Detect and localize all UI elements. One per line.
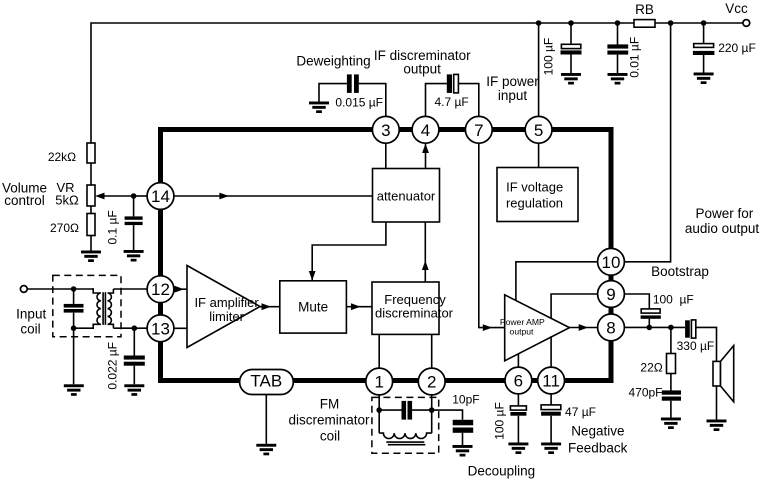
svg-text:control: control: [4, 193, 45, 208]
node VR wiper junction: [131, 193, 137, 199]
svg-text:7: 7: [474, 121, 483, 140]
wire deweighting cap right to pin 3: [359, 84, 386, 117]
capacitor 100uF decoupling: [510, 394, 526, 443]
svg-text:FM: FM: [320, 397, 340, 412]
capacitor 0.022uF: [124, 328, 145, 384]
pin 1: [366, 368, 393, 395]
wire pin 1 down: [378, 395, 380, 434]
wire secondary bottom to pin 13: [113, 327, 147, 329]
capacitor FM coil cap: [402, 401, 413, 420]
block Mute: [280, 281, 347, 333]
ground 470pF: [661, 418, 681, 430]
ground input coil: [64, 384, 84, 396]
ground 220uF: [694, 73, 714, 85]
ground 100uF top: [561, 73, 581, 85]
svg-text:5: 5: [534, 121, 543, 140]
svg-text:10: 10: [602, 253, 621, 272]
svg-text:100 µF: 100 µF: [542, 38, 556, 76]
pin 5: [525, 116, 552, 143]
node pin8 junction b: [668, 325, 674, 331]
wire pin 11 into amp: [550, 336, 552, 367]
svg-text:TAB: TAB: [250, 372, 282, 391]
node FM coil left: [376, 407, 382, 413]
label Input coil: [16, 306, 46, 336]
node rail junction at 703: [701, 20, 707, 26]
amplifier power amp: [505, 295, 570, 361]
svg-text:discreminator: discreminator: [375, 306, 454, 321]
svg-text:IF amplifier: IF amplifier: [194, 295, 259, 310]
label FM discreminator coil: [288, 397, 370, 444]
wire power amp to pin 8 with arrow: [570, 324, 599, 331]
wire pin 12 to limiter with arrow: [174, 286, 188, 293]
capacitor 330uF: [685, 320, 696, 338]
wire pin 5 to IF voltage regulation: [538, 143, 540, 168]
svg-text:Power for: Power for: [696, 206, 754, 221]
wire frequency discriminator to pin 2: [431, 334, 433, 368]
wire input coil bottom to ground: [73, 328, 75, 384]
svg-text:9: 9: [606, 285, 615, 304]
wire to 10pF: [432, 410, 463, 420]
transformer input primary winding: [74, 289, 101, 328]
node pin8 junction a: [647, 325, 653, 331]
dashed box input coil: [53, 275, 121, 336]
svg-text:IF voltage: IF voltage: [506, 179, 563, 194]
wire pin 8 output line: [624, 326, 685, 328]
svg-text:Bootstrap: Bootstrap: [651, 264, 709, 279]
svg-text:4: 4: [421, 121, 430, 140]
label Volume control: [2, 180, 47, 208]
node rail junction at 670: [668, 20, 674, 26]
svg-text:discreminator: discreminator: [288, 412, 370, 427]
block IF voltage regulation: [497, 168, 578, 222]
pin 7: [465, 116, 492, 143]
wire rail to pin 5: [538, 23, 540, 117]
ground volume divider: [81, 251, 101, 263]
wire 22 ohm to 470pF: [670, 374, 672, 391]
svg-text:3: 3: [381, 121, 390, 140]
wire pin 6 into amp: [517, 354, 519, 368]
wire VR to 270: [90, 206, 92, 214]
label IF power input: [486, 74, 539, 103]
TAB pad: [240, 370, 294, 395]
block frequency discriminator: [372, 282, 454, 334]
svg-text:470pF: 470pF: [628, 386, 662, 400]
capacitor 10pF: [453, 420, 474, 445]
capacitor 47uF: [541, 394, 561, 443]
capacitor 470pF: [662, 390, 681, 417]
svg-text:22Ω: 22Ω: [640, 361, 662, 375]
label IF amplifier limiter: [194, 295, 259, 324]
speaker: [713, 346, 734, 402]
svg-text:6: 6: [514, 372, 523, 391]
inductor FM coil: [379, 433, 432, 438]
svg-text:output: output: [510, 326, 535, 336]
resistor 22k: [87, 143, 95, 163]
wire junction b to 22 ohm: [670, 327, 672, 353]
svg-text:1: 1: [374, 373, 383, 392]
pin 6: [505, 367, 532, 394]
svg-text:4.7 µF: 4.7 µF: [434, 95, 468, 109]
transformer secondary winding: [108, 289, 114, 328]
node rail junction at 538: [536, 20, 542, 26]
wire 270 to ground: [90, 236, 92, 251]
label Negative Feedback: [568, 423, 628, 455]
resistor RB: [634, 20, 655, 28]
IC body thick outline: [161, 130, 612, 381]
svg-text:47 µF: 47 µF: [565, 405, 596, 419]
wire FM cap right lead: [412, 409, 432, 411]
ground 100uF decoupling: [508, 443, 528, 455]
svg-text:Deweighting: Deweighting: [296, 54, 370, 69]
wire rail to 0.01uF cap: [617, 23, 619, 45]
ground 0.022uF: [124, 384, 144, 396]
svg-text:Vcc: Vcc: [725, 1, 748, 16]
svg-text:270Ω: 270Ω: [50, 221, 79, 235]
resistor VR 5k potentiometer: [87, 185, 134, 206]
wire pin 7 down to power amp with arrow: [479, 143, 505, 331]
svg-text:Mute: Mute: [298, 300, 328, 315]
capacitor 0.01uF: [607, 44, 628, 73]
wire frequency discriminator to attenuator with up arrow: [422, 222, 429, 282]
wire TAB to ground: [265, 395, 267, 444]
node 0.022 junction: [132, 325, 138, 331]
pin 2: [418, 368, 445, 395]
node rail junction at 617: [615, 20, 621, 26]
svg-text:limiter: limiter: [209, 309, 244, 324]
ground 47uF: [541, 443, 561, 455]
pin 11: [538, 367, 565, 394]
wire Mute to frequency discriminator with arrow: [346, 303, 372, 310]
svg-text:0.1 µF: 0.1 µF: [106, 210, 120, 244]
capacitor 4.7uF: [447, 74, 459, 93]
svg-text:Feedback: Feedback: [568, 440, 628, 455]
pin 12: [147, 276, 174, 303]
wire pin 9 into amp slope: [551, 294, 598, 319]
svg-text:audio output: audio output: [685, 221, 760, 236]
svg-text:5kΩ: 5kΩ: [55, 193, 79, 208]
svg-text:input: input: [498, 88, 528, 103]
svg-text:0.01 µF: 0.01 µF: [628, 37, 642, 78]
block attenuator: [373, 169, 440, 223]
label IF discreminator output: [374, 48, 471, 77]
svg-text:coil: coil: [20, 322, 40, 337]
pin 13: [147, 315, 174, 342]
wire FM cap left lead: [379, 409, 401, 411]
ground speaker: [707, 420, 727, 432]
wire Vcc top supply rail: [91, 23, 743, 143]
node rail junction at 571: [568, 20, 574, 26]
capacitor input coil tuning: [64, 289, 84, 328]
svg-text:attenuator: attenuator: [377, 188, 436, 203]
svg-text:22kΩ: 22kΩ: [48, 150, 76, 164]
capacitor 0.015uF deweighting: [347, 74, 359, 93]
resistor 22 ohm: [667, 354, 676, 374]
wire pin 2 down: [431, 395, 433, 434]
resistor 270: [87, 214, 95, 236]
wire frequency discriminator to pin 1: [378, 334, 380, 368]
wire pin14 to attenuator with arrow: [174, 193, 373, 200]
wire limiter to Mute with arrow: [260, 303, 280, 310]
capacitor 100uF top: [561, 44, 582, 73]
node FM coil right: [429, 407, 435, 413]
svg-text:100 µF: 100 µF: [653, 293, 694, 307]
svg-text:IF power: IF power: [486, 74, 539, 89]
pin 8: [598, 314, 625, 341]
pin 14: [147, 183, 174, 210]
svg-text:Negative: Negative: [571, 423, 624, 438]
svg-text:220 µF: 220 µF: [718, 41, 756, 55]
svg-text:12: 12: [151, 280, 170, 299]
svg-text:Power AMP: Power AMP: [500, 317, 545, 327]
wire pin 9 to 100uF bootstrap cap: [624, 294, 649, 309]
ground 10pF: [453, 445, 473, 457]
wire 4.7uF left to pin 4: [426, 84, 447, 117]
amplifier IF amplifier limiter: [187, 266, 260, 348]
wire rail to 100uF cap: [570, 23, 572, 45]
label Power AMP output: [500, 317, 545, 337]
svg-text:Decoupling: Decoupling: [468, 463, 536, 478]
wire deweighting cap left to ground: [319, 84, 347, 102]
wire pin 10 to bootstrap slope: [516, 262, 598, 300]
capacitor 220uF: [693, 44, 715, 73]
ground 0.1uF: [124, 250, 144, 262]
pin 4: [412, 116, 439, 143]
wire pin 13 to limiter: [174, 327, 188, 329]
svg-text:13: 13: [151, 319, 170, 338]
input terminal: [20, 286, 27, 293]
ground deweighting: [309, 102, 329, 114]
svg-text:8: 8: [606, 318, 615, 337]
svg-text:100 µF: 100 µF: [493, 402, 507, 440]
label Power for audio output: [685, 206, 760, 236]
wire 22k to VR: [90, 163, 92, 185]
svg-text:2: 2: [427, 373, 436, 392]
wire attenuator bottom to Mute with down arrow: [309, 222, 386, 281]
svg-text:10pF: 10pF: [452, 392, 479, 406]
svg-text:coil: coil: [320, 428, 340, 443]
inductor core lines: [386, 442, 425, 445]
svg-text:330 µF: 330 µF: [677, 339, 715, 353]
dashed box FM discriminator coil: [372, 397, 439, 453]
svg-text:IF discreminator: IF discreminator: [374, 48, 471, 63]
svg-text:output: output: [403, 62, 441, 77]
capacitor 0.1uF: [125, 196, 143, 250]
wire secondary top to pin 12: [113, 288, 147, 290]
pin 3: [372, 116, 399, 143]
node input cap bottom: [71, 325, 77, 331]
Vcc terminal: [743, 20, 750, 27]
node input cap top: [71, 286, 77, 292]
svg-text:14: 14: [151, 187, 170, 206]
ground TAB: [256, 444, 276, 456]
wire 4.7uF right to pin 7: [458, 84, 478, 117]
transformer core: [103, 292, 105, 325]
svg-text:Input: Input: [16, 306, 46, 321]
wire pin 10 to rail riser: [624, 23, 671, 262]
wire speaker to ground: [716, 386, 718, 420]
wire 330uF to speaker: [696, 327, 717, 361]
svg-text:0.015 µF: 0.015 µF: [335, 96, 383, 110]
svg-text:0.022 µF: 0.022 µF: [106, 342, 120, 390]
wire pin 3 to attenuator: [385, 143, 387, 169]
wire rail to 220uF cap: [703, 23, 705, 44]
wire input terminal to coil: [27, 288, 94, 290]
wire attenuator to pin 4 with up arrow: [422, 144, 429, 169]
wire VR wiper to pin 14: [134, 195, 148, 197]
ground 0.01uF: [608, 73, 628, 85]
svg-text:11: 11: [542, 372, 560, 391]
pin 9: [598, 281, 625, 308]
capacitor 100uF bootstrap: [641, 309, 661, 328]
pin 10: [598, 248, 625, 275]
svg-text:RB: RB: [635, 2, 654, 17]
svg-text:regulation: regulation: [506, 195, 563, 210]
